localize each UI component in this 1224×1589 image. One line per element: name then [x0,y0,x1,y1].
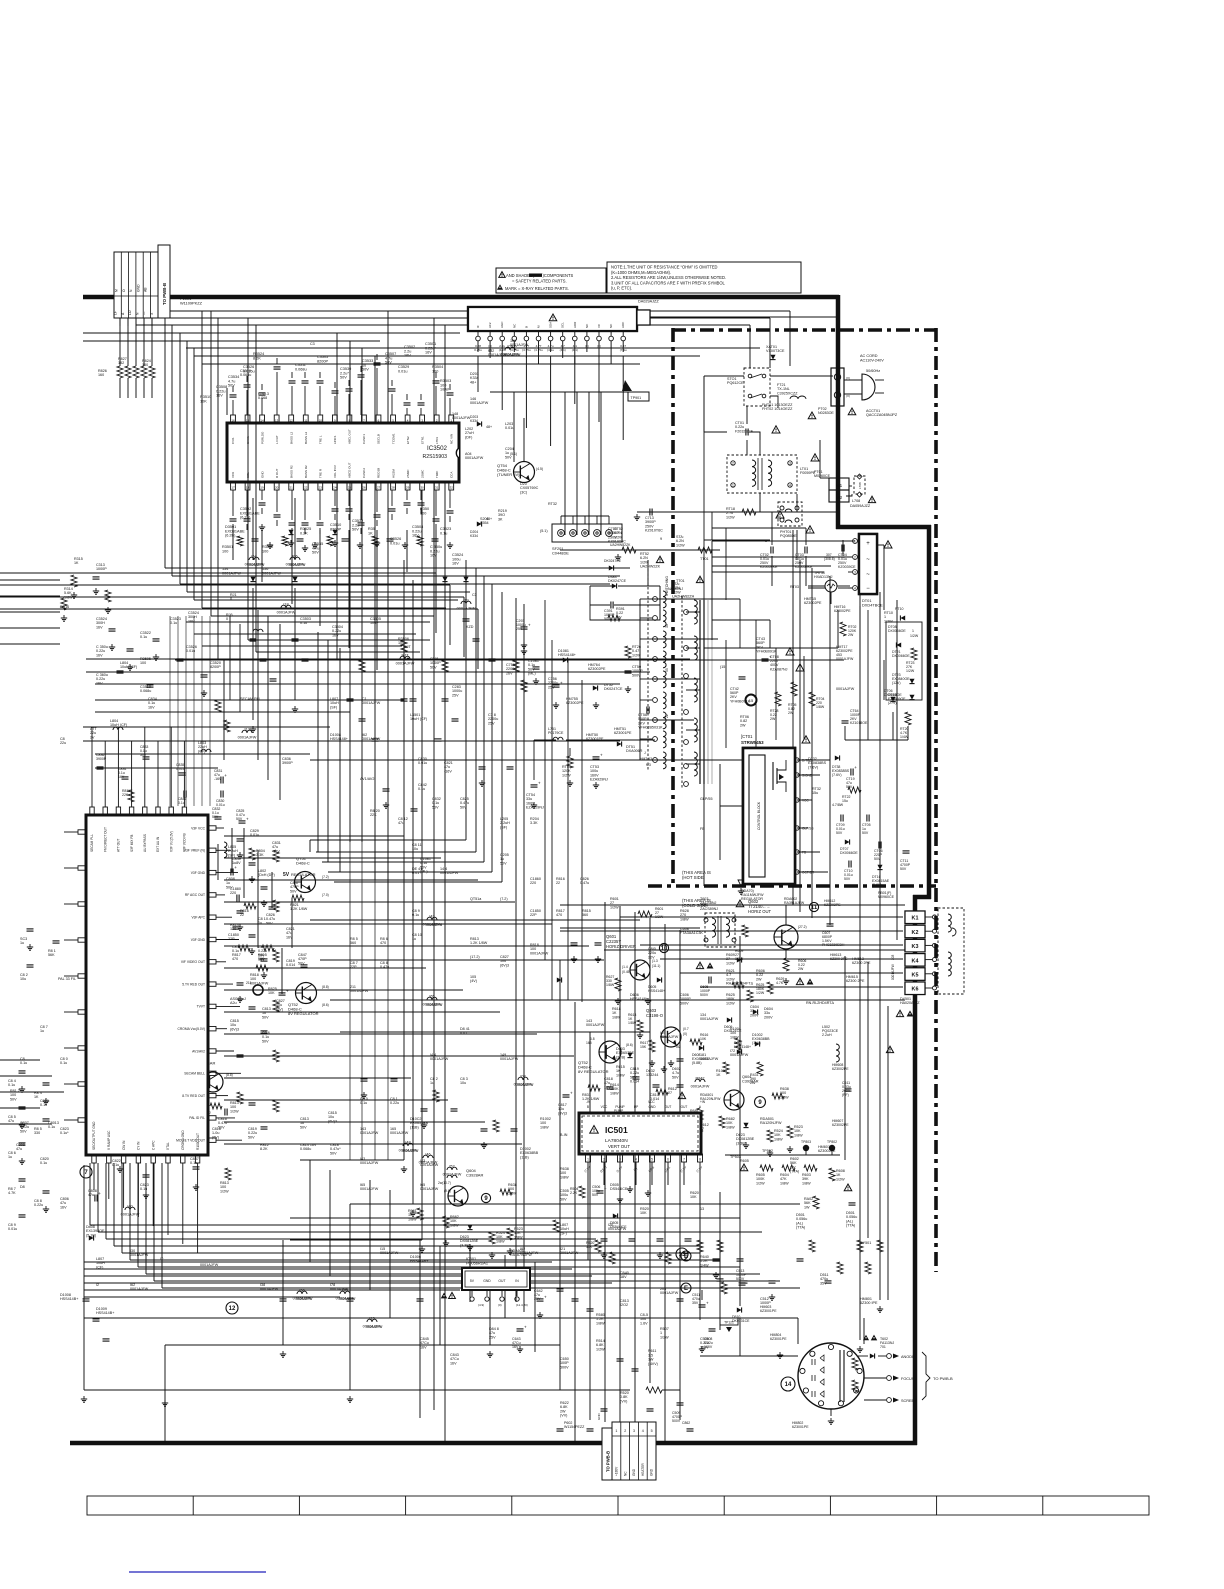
wire [686,729,700,731]
svg-text:50V: 50V [862,831,869,835]
wire PWB main border right mid [927,525,932,899]
wire h1204 [350,1203,800,1205]
wire [316,851,476,853]
svg-text:100: 100 [222,549,228,553]
svg-text:0001AJFW: 0001AJFW [560,1251,579,1255]
wire IC801 feed [224,1077,411,1079]
svg-text:F2032SCE: F2032SCE [735,429,754,433]
svg-text:KZD: KZD [466,625,474,629]
svg-text:113: 113 [244,728,250,732]
wire h712 [95,711,350,713]
svg-text:0001AJFW: 0001AJFW [440,871,459,875]
wire [309,840,311,852]
capacitor texture2 [595,942,602,944]
capacitor texture2 [479,766,486,768]
wire IC801 right pin stem [216,1139,242,1141]
wire [651,1162,653,1185]
capacitor texture2 [411,808,418,810]
wire [229,616,231,700]
ground texture5 [269,542,271,545]
resistor R821 [292,895,304,901]
svg-text:133244: 133244 [646,1073,658,1077]
svg-text:IC501: IC501 [605,1125,628,1135]
capacitor CT53 [593,756,600,758]
capacitor C832 [215,816,222,818]
svg-text:1/2W: 1/2W [660,1335,669,1339]
wire [143,378,145,398]
wire IC801 bottom pin down [152,1163,154,1226]
ground texture2 [239,996,241,999]
bead ferrite [297,1291,307,1294]
svg-text:2W: 2W [740,723,746,727]
resistor RT52 [622,547,636,553]
svg-text:IC3502: IC3502 [427,445,448,452]
svg-text:1/2W: 1/2W [910,634,919,638]
wire focus [864,1377,886,1379]
svg-text:0.01: 0.01 [412,871,419,875]
svg-text:(DxH (DF): (DxH (DF) [258,873,275,877]
svg-text:TP803: TP803 [801,1140,811,1144]
resistor texture5 [282,536,288,546]
node IC801 left pin [78,1010,86,1014]
capacitor C509 [677,1402,684,1404]
svg-text:500V: 500V [680,1001,689,1005]
wire [387,836,389,1160]
wire tuner drop [550,356,552,446]
node TT01 pin [684,782,689,787]
svg-text:(5.8B): (5.8B) [692,1061,702,1065]
svg-text:TP901: TP901 [631,396,642,400]
wire power v [896,640,898,852]
transistor QT54 [514,462,535,483]
capacitor texture [302,658,309,660]
svg-text:1/2W: 1/2W [610,905,619,909]
wire [106,1238,596,1240]
wire crt1 [560,1389,630,1391]
capacitor texture2 [825,1280,832,1282]
resistor R682 [719,1116,725,1128]
capacitor texture2 [435,738,442,740]
wire [164,318,166,568]
diode D623 [467,1225,472,1230]
svg-text:0001AJFW: 0001AJFW [530,951,549,955]
svg-text:EXT AU IN: EXT AU IN [156,836,160,852]
svg-text:XTAL: XTAL [166,1142,170,1150]
wire [145,1163,147,1274]
wire [374,836,376,1160]
svg-text:50V: 50V [592,1193,599,1197]
wire IC801 bottom pin down [108,1163,110,1199]
svg-text:0.47u: 0.47u [580,881,589,885]
svg-text:50V: 50V [672,1075,679,1079]
wire [327,640,329,862]
wire [84,1289,460,1291]
svg-text:22: 22 [240,913,244,917]
svg-text:M0260CE: M0260CE [814,474,831,478]
svg-text:4: 4 [642,1429,644,1433]
wire [320,959,604,961]
wire [634,912,636,1422]
connector SF201 [552,524,622,542]
svg-text:211: 211 [246,981,252,985]
capacitor C1850 [233,926,240,928]
wire crt10 [739,1318,741,1356]
svg-text:1.2K 1/8W: 1.2K 1/8W [290,907,308,911]
bead ferrite [427,917,437,920]
capacitor C1880 [236,895,238,902]
ground texture2 [239,924,241,927]
svg-text:3K: 3K [498,517,503,521]
wire [649,918,651,1383]
resistor RT04 [809,692,815,706]
wire [483,576,485,862]
wire left stub [0,627,60,629]
svg-text:0.1u: 0.1u [170,621,177,625]
wire [154,1280,780,1282]
wire [105,1163,107,1239]
svg-text:~: ~ [866,572,870,578]
capacitor texture [359,718,366,720]
wire [837,406,839,420]
svg-text:1/8W: 1/8W [774,1137,783,1141]
svg-text:26V: 26V [506,671,513,675]
svg-text:200V: 200V [764,1015,773,1019]
wire degauss2 [560,549,720,551]
capacitor texture2 [361,1078,368,1080]
svg-text:S/GND: S/GND [802,774,813,778]
svg-text:0.1u: 0.1u [190,1161,197,1165]
wire left bus [0,596,464,598]
resistor R391 [608,615,620,621]
wire [652,678,700,680]
resistor texture [697,1240,703,1252]
svg-text:1/8W: 1/8W [610,1091,619,1095]
capacitor texture3 [109,628,116,630]
svg-text:2SMC: 2SMC [420,469,424,478]
capacitor texture2 [677,1084,684,1086]
capacitor texture [260,658,267,660]
wire [223,660,225,760]
svg-text:AC CORD: AC CORD [860,354,878,358]
svg-text:10K: 10K [690,1195,697,1199]
capacitor C506 [597,1190,604,1192]
resistor R627 [615,978,621,991]
svg-text:ZACS89NJ: ZACS89NJ [700,907,718,911]
AC plug ACCT01 [862,374,875,400]
wire [808,585,825,587]
svg-text:CROMA Vcc(5.0V): CROMA Vcc(5.0V) [178,1027,205,1031]
resistor RT28 [775,692,781,706]
winding TT01 primary [694,636,697,660]
svg-text:0.1u: 0.1u [440,531,447,535]
svg-text:DS544ICE: DS544ICE [610,1187,628,1191]
wire [620,916,903,918]
wire [151,318,153,366]
svg-text:YFH0B091K: YFH0B091K [730,699,751,703]
wire IC3502 drop [232,530,234,560]
wire [162,1287,800,1289]
wire [560,904,905,906]
node IC801 left pin [78,866,86,870]
svg-text:DK0247CE: DK0247CE [604,559,622,563]
wire [151,318,153,326]
capacitor above IC3502 pin [360,380,362,415]
svg-text:E: E [684,1286,688,1292]
wire [907,726,909,740]
node TT01 secondary pin [653,737,658,742]
wire [746,406,748,424]
ground texture [83,1396,85,1399]
resistor R804 [249,848,255,860]
wire [560,927,700,929]
svg-text:A2u: A2u [230,1001,237,1005]
svg-text:(308.6): (308.6) [824,557,835,561]
wire [769,318,771,368]
wire hot-side dash-dot box left [671,328,675,888]
resistor R616 [690,1039,702,1045]
bead left1 [125,1207,135,1210]
capacitor texture4 [19,1070,26,1072]
wire [489,341,491,358]
wire [83,332,460,334]
resistor R817 [238,945,250,951]
node TT01 pin [684,674,689,679]
resistor R431 [757,1062,763,1076]
svg-text:10uH (CF): 10uH (CF) [410,717,427,721]
wire [165,1344,560,1346]
svg-text:120: 120 [230,927,236,931]
capacitor above IC3502 pin [348,394,350,415]
wire h1232 [290,1231,762,1233]
capacitor C862 [687,1428,694,1430]
svg-text:0001AJFW: 0001AJFW [836,687,855,691]
svg-text:R2S15903: R2S15903 [422,454,447,460]
resistor R815 [262,945,274,951]
wire [444,325,446,1443]
wire IC801 feed [224,923,552,925]
ground texture4 [45,1098,47,1101]
svg-text:AC110V-240V: AC110V-240V [860,358,884,362]
wire center v [551,640,553,1000]
svg-text:(DF): (DF) [465,435,472,439]
wire IC801 right pin stem [216,872,238,874]
svg-text:1/2W: 1/2W [756,991,765,995]
wire [135,318,137,326]
wire IC801 right pin stem [216,1072,241,1074]
svg-text:28: 28 [391,485,395,489]
wire pwr h620 [712,619,770,621]
svg-text:(11.4,20): (11.4,20) [516,1303,528,1307]
wire IC801 right pin stem [216,1050,234,1052]
wire crt9 [863,1318,865,1344]
svg-text:V3F GND: V3F GND [191,938,206,942]
op-amp IC3502 [227,423,459,482]
svg-text:AB: AB [144,287,148,292]
svg-text:(TTA): (TTA) [796,1226,805,1230]
svg-text:(0.45): (0.45) [622,970,631,974]
svg-text:4.7K: 4.7K [776,981,784,985]
capacitor texture3 [127,648,134,650]
ground texture [349,1396,351,1399]
wire [469,1246,471,1302]
svg-text:22P: 22P [350,965,357,969]
wire [799,560,801,912]
svg-text:2: 2 [854,556,856,560]
svg-text:50V: 50V [844,877,851,881]
capacitor CT50 [625,670,632,672]
resistor texture [442,660,448,672]
wire [146,1273,760,1275]
wire [686,689,700,691]
svg-text:(17.2): (17.2) [470,955,480,959]
capacitor texture [601,1408,608,1410]
ground texture4 [21,1122,23,1125]
svg-text:50V: 50V [460,805,467,809]
bead ferrite [427,997,437,1000]
wire [328,871,492,873]
capacitor texture2 [797,1258,804,1260]
svg-text:50/60Hz: 50/60Hz [866,369,880,373]
wire [271,872,273,908]
bead RJ7 [400,656,410,659]
svg-text:470: 470 [380,941,386,945]
svg-text:OUT: OUT [681,1105,688,1109]
svg-text:0001AJFW: 0001AJFW [402,1149,419,1153]
wire bundle to ic801 [177,616,179,806]
svg-text:10K: 10K [640,1211,647,1215]
svg-text:1: 1 [912,629,914,633]
wire [164,1345,166,1443]
wire tuner to border [650,316,838,318]
wire PWB hot-cold step [836,525,931,530]
wire PWB border jog [913,895,931,900]
svg-text:6Z3001PE: 6Z3001PE [770,1337,787,1341]
svg-text:PAL ID FIL: PAL ID FIL [189,1116,205,1120]
svg-text:(NVV): (NVV) [648,1362,658,1366]
wire extra h768 [95,767,218,769]
svg-text:50V: 50V [262,1039,269,1043]
svg-text:R842: R842 [695,1077,704,1081]
svg-text:J: J [644,751,646,755]
svg-text:B: B [587,1105,589,1109]
wire [739,936,741,1300]
test point TP802 [829,1145,835,1151]
wire IC3502 drop [291,530,293,604]
svg-text:50V: 50V [352,528,359,532]
ground power2 [785,864,787,867]
wire [210,311,212,616]
svg-text:1.2K 1/8W: 1.2K 1/8W [470,941,488,945]
wire IC801 top pin up [131,741,133,807]
resistor RT26 [625,646,631,658]
bead ferrite [461,601,471,604]
svg-text:50V: 50V [290,889,297,893]
svg-text:I7:: I7: [160,1257,164,1261]
wire [290,1239,422,1241]
resistor R605 [760,1165,773,1171]
wire power loop1 [704,375,744,377]
svg-text:3: 3 [789,462,791,466]
capacitor above IC3502 pin [276,372,278,415]
ground Q603 [651,1060,653,1063]
capacitor texture4 [27,928,34,930]
diode texture [292,577,297,582]
resistor texture2 [865,1262,871,1274]
wire IC801 feed [224,1121,485,1123]
ground texture [489,1351,491,1354]
svg-text:(8.8): (8.8) [226,1073,233,1077]
wire [121,1163,123,1253]
transformer T602 [705,913,735,947]
svg-text:0001AJFW: 0001AJFW [420,1163,439,1167]
diode D608 [699,1045,704,1050]
transistor PT01 M1 M2 box [829,478,849,490]
wire left stub [0,579,60,581]
wire [279,624,281,800]
diode D623b [743,1123,748,1128]
svg-text:16V: 16V [148,705,155,709]
capacitor texture [587,1308,594,1310]
svg-text:4.7K: 4.7K [8,1191,16,1195]
wire [83,340,279,342]
capacitor C830 [220,791,222,798]
wire tuner drop [525,356,527,428]
svg-text:1/2W: 1/2W [906,669,915,673]
wire IC801 feed [224,901,515,903]
capacitor texture [280,1298,287,1300]
capacitor texture2 [249,1102,256,1104]
node TT01 secondary pin [653,597,658,602]
svg-text:UA2HW82ZH: UA2HW82ZH [672,595,695,599]
wire IC801 feed [224,835,404,837]
resistor R523b [787,1126,793,1138]
wire [843,372,845,380]
bead ferrite [447,1175,457,1178]
node IC801 left pin [78,830,86,834]
winding TT01 primary [694,600,697,624]
svg-text:48+: 48+ [470,380,476,384]
svg-text:TP802: TP802 [827,1140,837,1144]
capacitor texture4 [43,1190,50,1192]
svg-text:E: E [684,1254,688,1260]
node TT01 secondary pin [653,758,658,763]
svg-text:HSS414B+: HSS414B+ [60,1297,78,1301]
wire [310,759,660,761]
svg-text:MARK = X-RAY RELATED PARTS.: MARK = X-RAY RELATED PARTS. [505,286,569,291]
svg-text:100: 100 [432,369,438,373]
wire [769,856,771,884]
svg-text:RT03: RT03 [790,585,799,589]
ground degauss [617,554,619,557]
svg-text:2W: 2W [756,977,762,981]
node 14 [781,1377,795,1391]
wire step2 [194,633,416,635]
wire [664,924,666,1443]
capacitor texture [587,1428,594,1430]
svg-text:(4V): (4V) [470,979,477,983]
svg-text:DX0066OE: DX0066OE [892,654,910,658]
svg-text:1/8W: 1/8W [730,1035,739,1039]
capacitor texture [442,698,449,700]
svg-text:220: 220 [230,891,236,895]
svg-text:0001AJFW: 0001AJFW [390,1131,409,1135]
wire [712,539,770,541]
wire [294,498,296,560]
resistor R315 [71,575,77,587]
ground texture5 [314,542,316,545]
svg-text:0001AJFW: 0001AJFW [700,1017,719,1021]
resistor R524b [767,1130,773,1142]
